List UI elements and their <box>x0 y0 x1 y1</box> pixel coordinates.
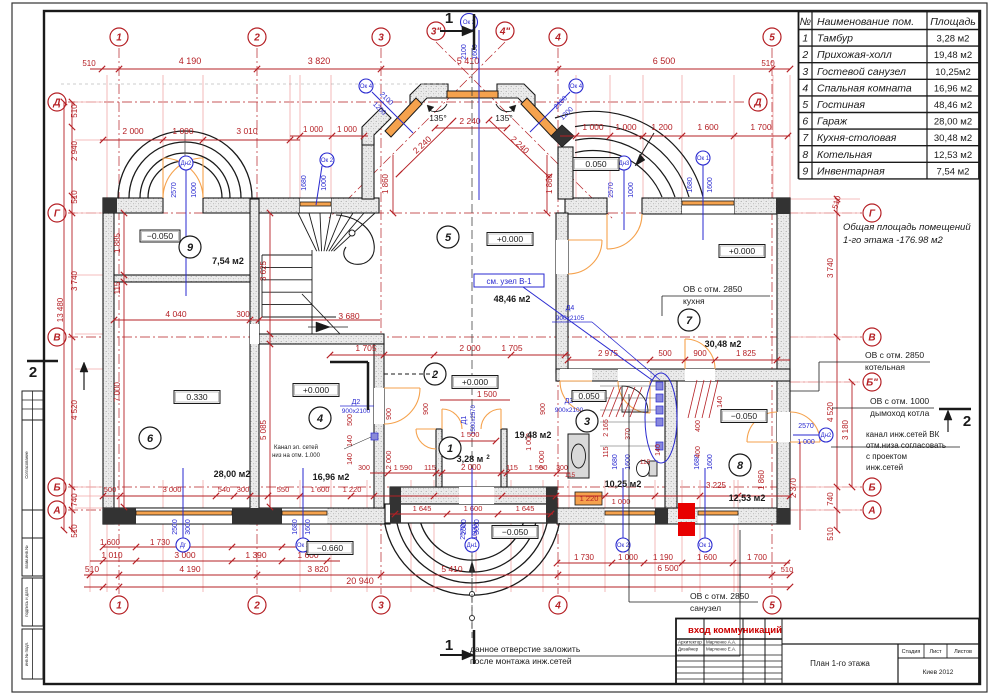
svg-text:115: 115 <box>506 463 518 472</box>
svg-text:ОВ с отм. 2850: ОВ с отм. 2850 <box>683 284 742 294</box>
svg-text:1 730: 1 730 <box>150 538 171 547</box>
svg-text:Спальная комната: Спальная комната <box>817 82 912 94</box>
svg-text:3,28 м: 3,28 м <box>457 454 484 464</box>
svg-text:+0.000: +0.000 <box>497 234 524 244</box>
svg-text:1 645: 1 645 <box>516 504 535 513</box>
svg-text:Б: Б <box>868 483 875 494</box>
svg-text:2 000: 2 000 <box>122 126 144 136</box>
svg-text:510: 510 <box>70 104 79 118</box>
svg-text:Дг: Дг <box>180 543 187 549</box>
svg-text:2500: 2500 <box>172 519 179 535</box>
svg-text:300: 300 <box>237 485 250 494</box>
svg-text:2 000: 2 000 <box>461 463 482 472</box>
svg-text:135°: 135° <box>495 113 513 123</box>
svg-text:5: 5 <box>769 33 775 44</box>
svg-text:2570: 2570 <box>460 524 467 540</box>
svg-text:1 700: 1 700 <box>747 553 768 562</box>
svg-text:Архитектор: Архитектор <box>678 640 702 645</box>
svg-text:30,48 м2: 30,48 м2 <box>705 339 742 349</box>
svg-text:Дн3: Дн3 <box>619 161 630 167</box>
svg-text:540: 540 <box>218 485 231 494</box>
svg-text:Ок 2: Ок 2 <box>321 158 334 164</box>
svg-text:2: 2 <box>29 364 37 381</box>
svg-text:10,25 м2: 10,25 м2 <box>605 479 642 489</box>
svg-text:115: 115 <box>603 446 610 457</box>
svg-text:1600: 1600 <box>472 524 479 540</box>
svg-text:2 940: 2 940 <box>70 140 79 161</box>
svg-text:30,48 м2: 30,48 м2 <box>934 133 972 144</box>
svg-text:9: 9 <box>187 242 194 254</box>
svg-text:Наименование пом.: Наименование пом. <box>817 16 914 28</box>
svg-text:1 600: 1 600 <box>697 122 719 132</box>
svg-text:400: 400 <box>695 420 702 432</box>
svg-text:510: 510 <box>826 527 835 541</box>
svg-text:−0.050: −0.050 <box>147 231 174 241</box>
svg-text:6 500: 6 500 <box>657 563 679 573</box>
svg-text:1: 1 <box>447 443 453 455</box>
svg-text:1 860: 1 860 <box>381 173 390 194</box>
svg-text:1 220: 1 220 <box>343 485 362 494</box>
svg-text:1600: 1600 <box>707 177 714 193</box>
svg-text:1600: 1600 <box>625 454 632 470</box>
svg-text:котельная: котельная <box>865 362 905 372</box>
svg-text:1 390: 1 390 <box>245 550 267 560</box>
svg-text:№: № <box>800 16 811 28</box>
svg-text:1 000: 1 000 <box>612 497 631 506</box>
svg-text:1 705: 1 705 <box>501 343 523 353</box>
svg-text:3,28 м2: 3,28 м2 <box>937 34 970 45</box>
svg-text:6 500: 6 500 <box>653 56 676 66</box>
svg-text:19,48 м2: 19,48 м2 <box>515 430 552 440</box>
svg-text:−0.050: −0.050 <box>731 411 758 421</box>
svg-text:13 480: 13 480 <box>56 297 65 322</box>
svg-text:Прихожая-холл: Прихожая-холл <box>817 49 892 61</box>
svg-text:1 600: 1 600 <box>100 538 121 547</box>
svg-text:1 600: 1 600 <box>464 504 483 513</box>
svg-text:+0.000: +0.000 <box>462 377 489 387</box>
svg-text:В: В <box>868 333 875 344</box>
svg-text:900: 900 <box>423 403 430 415</box>
svg-text:подпись и дата: подпись и дата <box>24 587 29 617</box>
svg-text:0.050: 0.050 <box>578 391 600 401</box>
svg-text:1 010: 1 010 <box>101 550 123 560</box>
svg-text:500: 500 <box>347 414 354 426</box>
svg-text:Ок 4: Ок 4 <box>570 84 583 90</box>
svg-text:2 165: 2 165 <box>603 419 610 437</box>
svg-text:140: 140 <box>347 453 354 465</box>
svg-text:−0.050: −0.050 <box>502 527 529 537</box>
svg-text:1 000: 1 000 <box>797 439 815 446</box>
svg-text:Площадь: Площадь <box>930 16 976 28</box>
svg-text:115: 115 <box>640 459 651 466</box>
svg-text:низ на отм. 1.000: низ на отм. 1.000 <box>272 453 320 459</box>
svg-text:Д2: Д2 <box>352 399 361 406</box>
svg-text:2570: 2570 <box>171 182 178 198</box>
svg-text:План 1-го этажа: План 1-го этажа <box>810 659 870 668</box>
svg-text:А: А <box>867 506 875 517</box>
svg-text:2: 2 <box>253 601 260 612</box>
svg-text:12,53 м2: 12,53 м2 <box>934 150 972 161</box>
svg-text:3 740: 3 740 <box>70 270 79 291</box>
svg-text:Дн2: Дн2 <box>821 433 832 439</box>
svg-text:1 600: 1 600 <box>311 485 330 494</box>
svg-text:1 645: 1 645 <box>413 504 432 513</box>
svg-text:115: 115 <box>113 281 122 294</box>
svg-text:1 000: 1 000 <box>303 125 324 134</box>
svg-text:Лист: Лист <box>930 649 942 655</box>
svg-text:900х2105: 900х2105 <box>556 315 585 322</box>
svg-text:300: 300 <box>236 310 250 319</box>
svg-text:Гараж: Гараж <box>817 116 848 128</box>
svg-text:инв.№ подл.: инв.№ подл. <box>24 642 29 666</box>
svg-text:Киев 2012: Киев 2012 <box>923 669 954 676</box>
svg-text:4 520: 4 520 <box>826 401 835 422</box>
svg-text:1 220: 1 220 <box>580 494 599 503</box>
svg-text:дымоход котла: дымоход котла <box>870 408 930 418</box>
svg-text:инж.сетей: инж.сетей <box>866 463 903 472</box>
svg-text:Инвентарная: Инвентарная <box>817 165 885 177</box>
svg-text:3 820: 3 820 <box>307 564 329 574</box>
svg-text:2 000: 2 000 <box>459 343 481 353</box>
svg-text:48,46 м2: 48,46 м2 <box>494 294 531 304</box>
svg-text:1 000: 1 000 <box>615 122 637 132</box>
svg-text:1 700: 1 700 <box>750 122 772 132</box>
svg-text:канал инж.сетей ВК: канал инж.сетей ВК <box>866 430 940 439</box>
svg-text:8: 8 <box>802 149 808 161</box>
svg-text:Ок 2: Ок 2 <box>617 543 630 549</box>
svg-text:2570: 2570 <box>608 182 615 198</box>
svg-text:В: В <box>53 333 60 344</box>
svg-text:кухня: кухня <box>683 296 705 306</box>
svg-text:отм.низа согласовать: отм.низа согласовать <box>866 441 946 450</box>
svg-text:Стадия: Стадия <box>902 649 921 655</box>
svg-text:1 190: 1 190 <box>653 553 674 562</box>
svg-text:1680: 1680 <box>687 177 694 193</box>
svg-text:4: 4 <box>554 33 561 44</box>
svg-text:Д: Д <box>753 98 761 109</box>
svg-text:Д: Д <box>52 98 60 109</box>
svg-text:Канал эл. сетей: Канал эл. сетей <box>274 444 318 451</box>
svg-text:1: 1 <box>445 10 453 27</box>
svg-text:+0.000: +0.000 <box>729 246 756 256</box>
svg-text:900х2100: 900х2100 <box>342 408 371 415</box>
svg-text:140: 140 <box>655 444 662 456</box>
svg-text:1: 1 <box>116 33 122 44</box>
svg-text:3: 3 <box>378 601 384 612</box>
svg-text:Г: Г <box>54 209 61 220</box>
svg-text:8: 8 <box>737 460 744 472</box>
svg-text:1 590: 1 590 <box>394 463 413 472</box>
svg-text:510: 510 <box>70 524 79 538</box>
svg-text:5 085: 5 085 <box>259 419 268 440</box>
svg-text:1000: 1000 <box>628 182 635 198</box>
svg-text:4 190: 4 190 <box>179 56 202 66</box>
svg-text:510: 510 <box>70 190 79 204</box>
svg-text:3 680: 3 680 <box>338 311 360 321</box>
svg-text:115: 115 <box>424 463 436 472</box>
svg-text:2 000: 2 000 <box>384 451 393 470</box>
svg-text:140: 140 <box>717 396 724 408</box>
svg-text:1600: 1600 <box>707 454 714 470</box>
svg-text:1 825: 1 825 <box>736 349 757 358</box>
svg-text:7: 7 <box>686 315 693 327</box>
svg-text:3 740: 3 740 <box>826 257 835 278</box>
svg-text:3 625: 3 625 <box>259 260 268 281</box>
svg-text:санузел: санузел <box>690 603 721 613</box>
svg-text:1 000: 1 000 <box>618 553 639 562</box>
svg-text:900: 900 <box>386 408 393 420</box>
svg-text:ОВ с отм. 2850: ОВ с отм. 2850 <box>690 591 749 601</box>
svg-text:2 240: 2 240 <box>459 116 481 126</box>
svg-text:ОВ с отм. 2850: ОВ с отм. 2850 <box>865 350 924 360</box>
svg-text:Гостиная: Гостиная <box>817 99 865 111</box>
svg-text:3 000: 3 000 <box>163 485 182 494</box>
svg-text:550: 550 <box>277 485 290 494</box>
svg-text:Ок 1: Ок 1 <box>697 156 710 162</box>
svg-text:4 040: 4 040 <box>165 309 187 319</box>
svg-text:7,54 м2: 7,54 м2 <box>937 166 970 177</box>
svg-text:Г: Г <box>869 209 876 220</box>
svg-text:510: 510 <box>761 59 775 68</box>
svg-text:с проектом: с проектом <box>866 452 907 461</box>
svg-text:1 730: 1 730 <box>574 553 595 562</box>
svg-text:900: 900 <box>693 349 707 358</box>
svg-text:370: 370 <box>625 428 632 440</box>
svg-text:вход коммуникаций: вход коммуникаций <box>688 625 782 636</box>
svg-text:0.050: 0.050 <box>585 159 607 169</box>
svg-text:данное отверстие заложить: данное отверстие заложить <box>470 644 581 654</box>
svg-text:5: 5 <box>802 99 808 111</box>
svg-text:1 000: 1 000 <box>172 126 194 136</box>
svg-text:Общая площадь помещений: Общая площадь помещений <box>843 222 971 233</box>
svg-text:2 000: 2 000 <box>537 451 546 470</box>
svg-text:12,53 м2: 12,53 м2 <box>729 493 766 503</box>
svg-text:Марченко А.А.: Марченко А.А. <box>706 640 736 645</box>
svg-text:Д4: Д4 <box>566 305 575 312</box>
svg-text:Тамбур: Тамбур <box>817 33 853 45</box>
svg-text:ОВ с отм. 1000: ОВ с отм. 1000 <box>870 396 929 406</box>
svg-text:3000: 3000 <box>185 519 192 535</box>
svg-text:после монтажа инж.сетей: после монтажа инж.сетей <box>470 656 572 666</box>
svg-text:Б: Б <box>53 483 60 494</box>
svg-text:Д1: Д1 <box>461 416 468 425</box>
svg-text:1 705: 1 705 <box>355 343 377 353</box>
svg-text:Дизайнер: Дизайнер <box>678 646 699 652</box>
svg-text:5 410: 5 410 <box>441 564 463 574</box>
svg-text:115: 115 <box>565 472 576 479</box>
svg-text:1-го этажа -176.98 м2: 1-го этажа -176.98 м2 <box>843 235 944 246</box>
svg-text:1680: 1680 <box>612 454 619 470</box>
svg-text:Листов: Листов <box>954 649 972 655</box>
svg-text:1 885: 1 885 <box>113 232 122 253</box>
svg-text:1600: 1600 <box>305 519 312 535</box>
svg-text:1680: 1680 <box>301 175 308 191</box>
svg-text:1 500: 1 500 <box>461 430 480 439</box>
svg-text:1: 1 <box>116 601 122 612</box>
svg-text:4": 4" <box>499 27 511 38</box>
svg-text:1 200: 1 200 <box>651 122 673 132</box>
svg-text:135°: 135° <box>429 113 447 123</box>
svg-text:3: 3 <box>802 66 808 78</box>
svg-text:510: 510 <box>85 564 99 574</box>
svg-text:400: 400 <box>695 446 702 458</box>
svg-text:1 000: 1 000 <box>582 122 604 132</box>
svg-text:4: 4 <box>802 82 808 94</box>
svg-text:Согласование: Согласование <box>24 451 29 479</box>
svg-text:Ок 1: Ок 1 <box>699 543 712 549</box>
svg-text:Ок 4: Ок 4 <box>360 84 373 90</box>
svg-text:+0.000: +0.000 <box>303 385 330 395</box>
svg-text:−0.660: −0.660 <box>317 543 344 553</box>
svg-text:7 000: 7 000 <box>113 381 122 402</box>
svg-text:2: 2 <box>253 33 260 44</box>
svg-text:Дн1: Дн1 <box>467 543 478 549</box>
svg-text:500: 500 <box>658 349 672 358</box>
svg-text:5: 5 <box>445 232 452 244</box>
svg-text:1 000: 1 000 <box>337 125 358 134</box>
svg-text:1: 1 <box>445 637 453 654</box>
svg-text:6: 6 <box>147 433 154 445</box>
svg-text:А: А <box>52 506 60 517</box>
svg-text:510: 510 <box>82 59 96 68</box>
svg-text:500: 500 <box>104 485 117 494</box>
svg-text:2100: 2100 <box>461 44 468 60</box>
svg-text:1000: 1000 <box>191 182 198 198</box>
svg-text:48,46 м2: 48,46 м2 <box>934 100 972 111</box>
svg-text:7,54 м2: 7,54 м2 <box>212 256 244 266</box>
svg-text:3 820: 3 820 <box>308 56 331 66</box>
svg-text:740: 740 <box>826 492 835 506</box>
svg-text:4: 4 <box>554 601 561 612</box>
svg-text:Гостевой санузел: Гостевой санузел <box>817 66 906 78</box>
svg-text:3 180: 3 180 <box>841 419 850 440</box>
svg-text:4 190: 4 190 <box>179 564 201 574</box>
svg-text:10,25м2: 10,25м2 <box>935 67 971 78</box>
svg-text:19,48 м2: 19,48 м2 <box>934 50 972 61</box>
svg-text:3: 3 <box>378 33 384 44</box>
svg-text:2: 2 <box>431 369 438 381</box>
svg-text:3 010: 3 010 <box>236 126 258 136</box>
svg-text:3: 3 <box>584 416 590 428</box>
svg-text:28,00 м2: 28,00 м2 <box>214 469 251 479</box>
svg-text:Б": Б" <box>866 378 878 389</box>
svg-text:740: 740 <box>70 493 79 507</box>
svg-text:Котельная: Котельная <box>817 149 872 161</box>
svg-text:см. узел В-1: см. узел В-1 <box>486 277 532 286</box>
svg-text:1 500: 1 500 <box>477 390 498 399</box>
svg-text:1 860: 1 860 <box>757 469 766 490</box>
svg-text:1: 1 <box>802 33 808 45</box>
svg-text:3": 3" <box>431 27 442 38</box>
svg-text:1000: 1000 <box>321 175 328 191</box>
svg-text:2570: 2570 <box>798 423 814 430</box>
svg-text:4 520: 4 520 <box>70 399 79 420</box>
svg-text:3 225: 3 225 <box>706 481 727 490</box>
svg-text:Кухня-столовая: Кухня-столовая <box>817 132 897 144</box>
svg-text:16,96 м2: 16,96 м2 <box>313 472 350 482</box>
svg-text:20 940: 20 940 <box>346 576 374 586</box>
svg-text:0.330: 0.330 <box>186 392 208 402</box>
svg-text:2: 2 <box>801 49 808 61</box>
svg-text:300: 300 <box>358 465 370 472</box>
svg-text:6: 6 <box>802 116 808 128</box>
svg-text:1680: 1680 <box>292 519 299 535</box>
svg-text:Марченко Е.А.: Марченко Е.А. <box>706 647 736 652</box>
svg-text:5: 5 <box>769 601 775 612</box>
svg-text:1 600: 1 600 <box>697 553 718 562</box>
svg-text:2: 2 <box>963 413 971 430</box>
svg-text:4: 4 <box>316 413 323 425</box>
svg-text:взам.инв.№: взам.инв.№ <box>24 545 29 569</box>
svg-text:300: 300 <box>556 465 568 472</box>
svg-text:16,96 м2: 16,96 м2 <box>934 83 972 94</box>
svg-text:28,00 м2: 28,00 м2 <box>934 117 972 128</box>
svg-text:510: 510 <box>781 565 794 574</box>
svg-text:900: 900 <box>540 403 547 415</box>
svg-text:9: 9 <box>802 165 808 177</box>
svg-text:Дн2: Дн2 <box>181 161 192 167</box>
